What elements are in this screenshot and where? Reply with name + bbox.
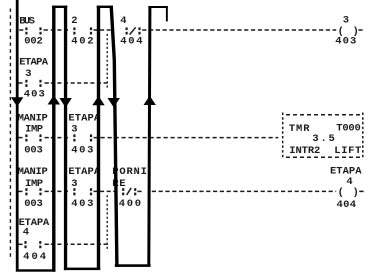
contact 403 — [73, 188, 92, 195]
svg-text:3: 3 — [71, 178, 77, 190]
left power rail (dashed) — [9, 9, 11, 259]
svg-text:402: 402 — [71, 36, 93, 48]
wire flow up bar 1L — [52, 6, 55, 272]
wire flow hook right drop — [166, 6, 168, 21]
svg-text:IMP: IMP — [25, 178, 43, 190]
svg-text:003: 003 — [24, 144, 43, 156]
svg-text:404: 404 — [120, 36, 142, 48]
svg-text:403: 403 — [71, 144, 93, 156]
wire rung1 — [19, 29, 362, 31]
wire rung3 — [18, 137, 278, 139]
svg-text:403: 403 — [24, 89, 45, 101]
svg-text:INTR2: INTR2 — [289, 145, 320, 157]
svg-text:002: 002 — [24, 36, 43, 48]
wire rung4 — [18, 190, 363, 192]
contact 403 — [73, 134, 92, 141]
wire flow line A (scan entry, downward) — [16, 0, 19, 270]
wire flow down bar 2R (slight slant) — [110, 6, 119, 267]
svg-text:3: 3 — [71, 124, 77, 136]
wire rung5 branch — [18, 243, 108, 245]
arrow up on bar 3 — [144, 96, 156, 105]
arrow down on line A — [11, 97, 23, 106]
wire flow up bar 3 (hook) — [147, 6, 151, 266]
svg-text:3.5: 3.5 — [312, 133, 334, 145]
wire flow bottom Ub (2R to hook) — [115, 264, 151, 267]
arrow up on bar 1L — [48, 95, 60, 104]
contact 404 branch — [24, 241, 41, 248]
wire flow top bar 1 — [52, 6, 67, 8]
svg-text:4: 4 — [23, 227, 29, 239]
svg-text:400: 400 — [119, 198, 141, 210]
wire flow up bar 2L — [97, 6, 100, 270]
svg-text:ETAPA: ETAPA — [19, 57, 48, 69]
timer block TMR T000 — [283, 113, 363, 159]
svg-text:403: 403 — [335, 36, 356, 48]
svg-text:4: 4 — [120, 15, 126, 27]
wire branch junction vertical — [106, 34, 108, 88]
arrow down on bar 2R — [108, 98, 120, 107]
contact 403 branch — [25, 80, 41, 87]
contact 003 — [25, 188, 41, 195]
wire flow bottom Ua (1R to 2L) — [64, 268, 100, 271]
svg-text:404: 404 — [23, 251, 46, 263]
wire flow top bar 2 — [97, 6, 113, 8]
svg-text:(: ( — [338, 187, 344, 199]
contact 003 — [25, 134, 41, 141]
arrow up on bar 2L — [92, 96, 104, 105]
svg-text:LIFT: LIFT — [334, 145, 361, 157]
svg-text:T000: T000 — [336, 122, 361, 134]
wire branch junction vertical — [106, 195, 108, 249]
contact 402 — [73, 27, 92, 34]
svg-text:IMP: IMP — [25, 124, 43, 136]
svg-text:MANIP: MANIP — [18, 166, 48, 178]
wire rung2 branch — [18, 82, 108, 84]
svg-text:404: 404 — [337, 199, 357, 211]
svg-text:003: 003 — [24, 198, 43, 210]
svg-text:TMR: TMR — [289, 123, 310, 135]
svg-text:403: 403 — [71, 198, 93, 210]
wire flow down bar 1R — [64, 6, 67, 271]
svg-text:): ) — [353, 187, 359, 199]
contact 404 normally-closed — [126, 27, 141, 34]
svg-text:PORNI: PORNI — [112, 166, 147, 178]
svg-text:3: 3 — [25, 68, 31, 80]
svg-text:ETAPA: ETAPA — [68, 166, 100, 178]
contact 002 (BUS) — [25, 27, 41, 34]
svg-text:4: 4 — [346, 176, 352, 188]
arrow down on bar 1R — [59, 98, 71, 108]
wire flow hook top bar — [148, 6, 167, 8]
svg-text:2: 2 — [71, 15, 77, 27]
contact 400 normally-closed — [122, 188, 136, 195]
wire flow bottom U0 (A to 1L) — [16, 269, 56, 271]
svg-text:BUS: BUS — [19, 15, 35, 27]
